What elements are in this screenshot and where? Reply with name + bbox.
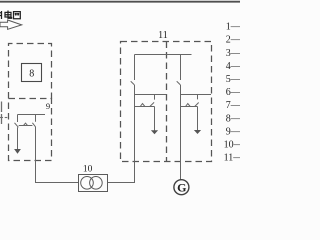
wire: earthing feeder with arrow (left compartment) — [154, 107, 156, 131]
transformer 10: winding circles — [81, 177, 94, 190]
wire: breaker 1 lower / to transformer — [134, 85, 136, 162]
top cropped frame line (no component) — [0, 1, 240, 3]
enclosure: dashed box 11 — [121, 42, 212, 162]
node: grid label (电网, cropped at left) — [0, 11, 20, 20]
wire: branch to wall (right compartment) — [181, 94, 212, 96]
transformer 10: enclosure box — [79, 175, 108, 192]
wire: feeder with arrow (box 9) — [17, 127, 19, 149]
box 8 (component 8) — [22, 64, 42, 82]
svg-text:5—: 5— — [226, 74, 240, 85]
svg-text:8—: 8— — [226, 113, 240, 124]
enclosure: dashed divider of box 11 — [166, 42, 168, 162]
disconnector bar (right compartment) — [181, 106, 198, 108]
svg-text:8: 8 — [29, 69, 34, 80]
switch QS: left contact stub — [17, 115, 19, 123]
wire: box 9 to transformer — [36, 127, 79, 183]
wire: earthing feeder with arrow (right compartment) — [197, 107, 199, 131]
disconnector bar (left compartment) — [135, 106, 155, 108]
svg-text:9: 9 — [46, 101, 50, 111]
wire: contact drop (right compartment) — [197, 95, 199, 100]
wire: contact drop (left compartment) — [154, 95, 156, 100]
arrow head (left compartment) — [151, 130, 158, 134]
svg-text:3—: 3— — [226, 48, 240, 59]
breaker 2: blade — [177, 81, 181, 84]
switch QS (box 9): bus wire — [18, 114, 46, 116]
svg-text:11—: 11— — [224, 153, 240, 164]
breaker 1: blade — [131, 81, 135, 84]
wire: block arrow to grid (cropped at left) — [0, 20, 22, 29]
svg-text:11: 11 — [158, 30, 168, 41]
generator G — [174, 180, 189, 195]
wire: breaker 2 lower / to generator — [180, 85, 182, 180]
enclosure: dashed box 9 — [9, 99, 52, 161]
svg-text:7—: 7— — [226, 100, 240, 111]
switch QS: left blade — [15, 123, 19, 128]
arrow head (right compartment) — [194, 130, 201, 134]
svg-text:4—: 4— — [226, 61, 240, 72]
enclosure: upper dashed compartment (contains 8) — [9, 44, 52, 99]
switch QS: right blade — [32, 123, 35, 127]
svg-text:2—: 2— — [226, 35, 240, 46]
svg-text:9—: 9— — [226, 126, 240, 137]
bus wire (box 11) — [135, 54, 192, 56]
svg-text:10: 10 — [83, 165, 93, 175]
disconnector triangle (left compartment) — [140, 104, 145, 107]
disconnector triangle (right compartment) — [186, 104, 191, 107]
disconnector blade (right compartment) — [195, 103, 199, 107]
legend list (cropped at right edge) — [224, 22, 245, 164]
svg-text:1—: 1— — [226, 22, 240, 33]
switch QS: linkage bar — [19, 125, 33, 127]
arrow head (feeder, box 9) — [14, 149, 21, 154]
svg-text:G: G — [177, 180, 186, 194]
svg-text:6—: 6— — [226, 87, 240, 98]
switch QS: drive triangle — [24, 123, 28, 125]
breaker 1 (left compartment): upper wire — [134, 55, 136, 81]
breaker 2 (right compartment): upper wire — [180, 55, 182, 81]
switch QS: right contact stub — [35, 115, 37, 122]
svg-text:10—: 10— — [224, 140, 240, 151]
wire: branch to wall (left compartment) — [135, 94, 167, 96]
wire: transformer to box 11 left branch — [108, 161, 135, 183]
disconnector blade (left compartment) — [150, 102, 154, 106]
